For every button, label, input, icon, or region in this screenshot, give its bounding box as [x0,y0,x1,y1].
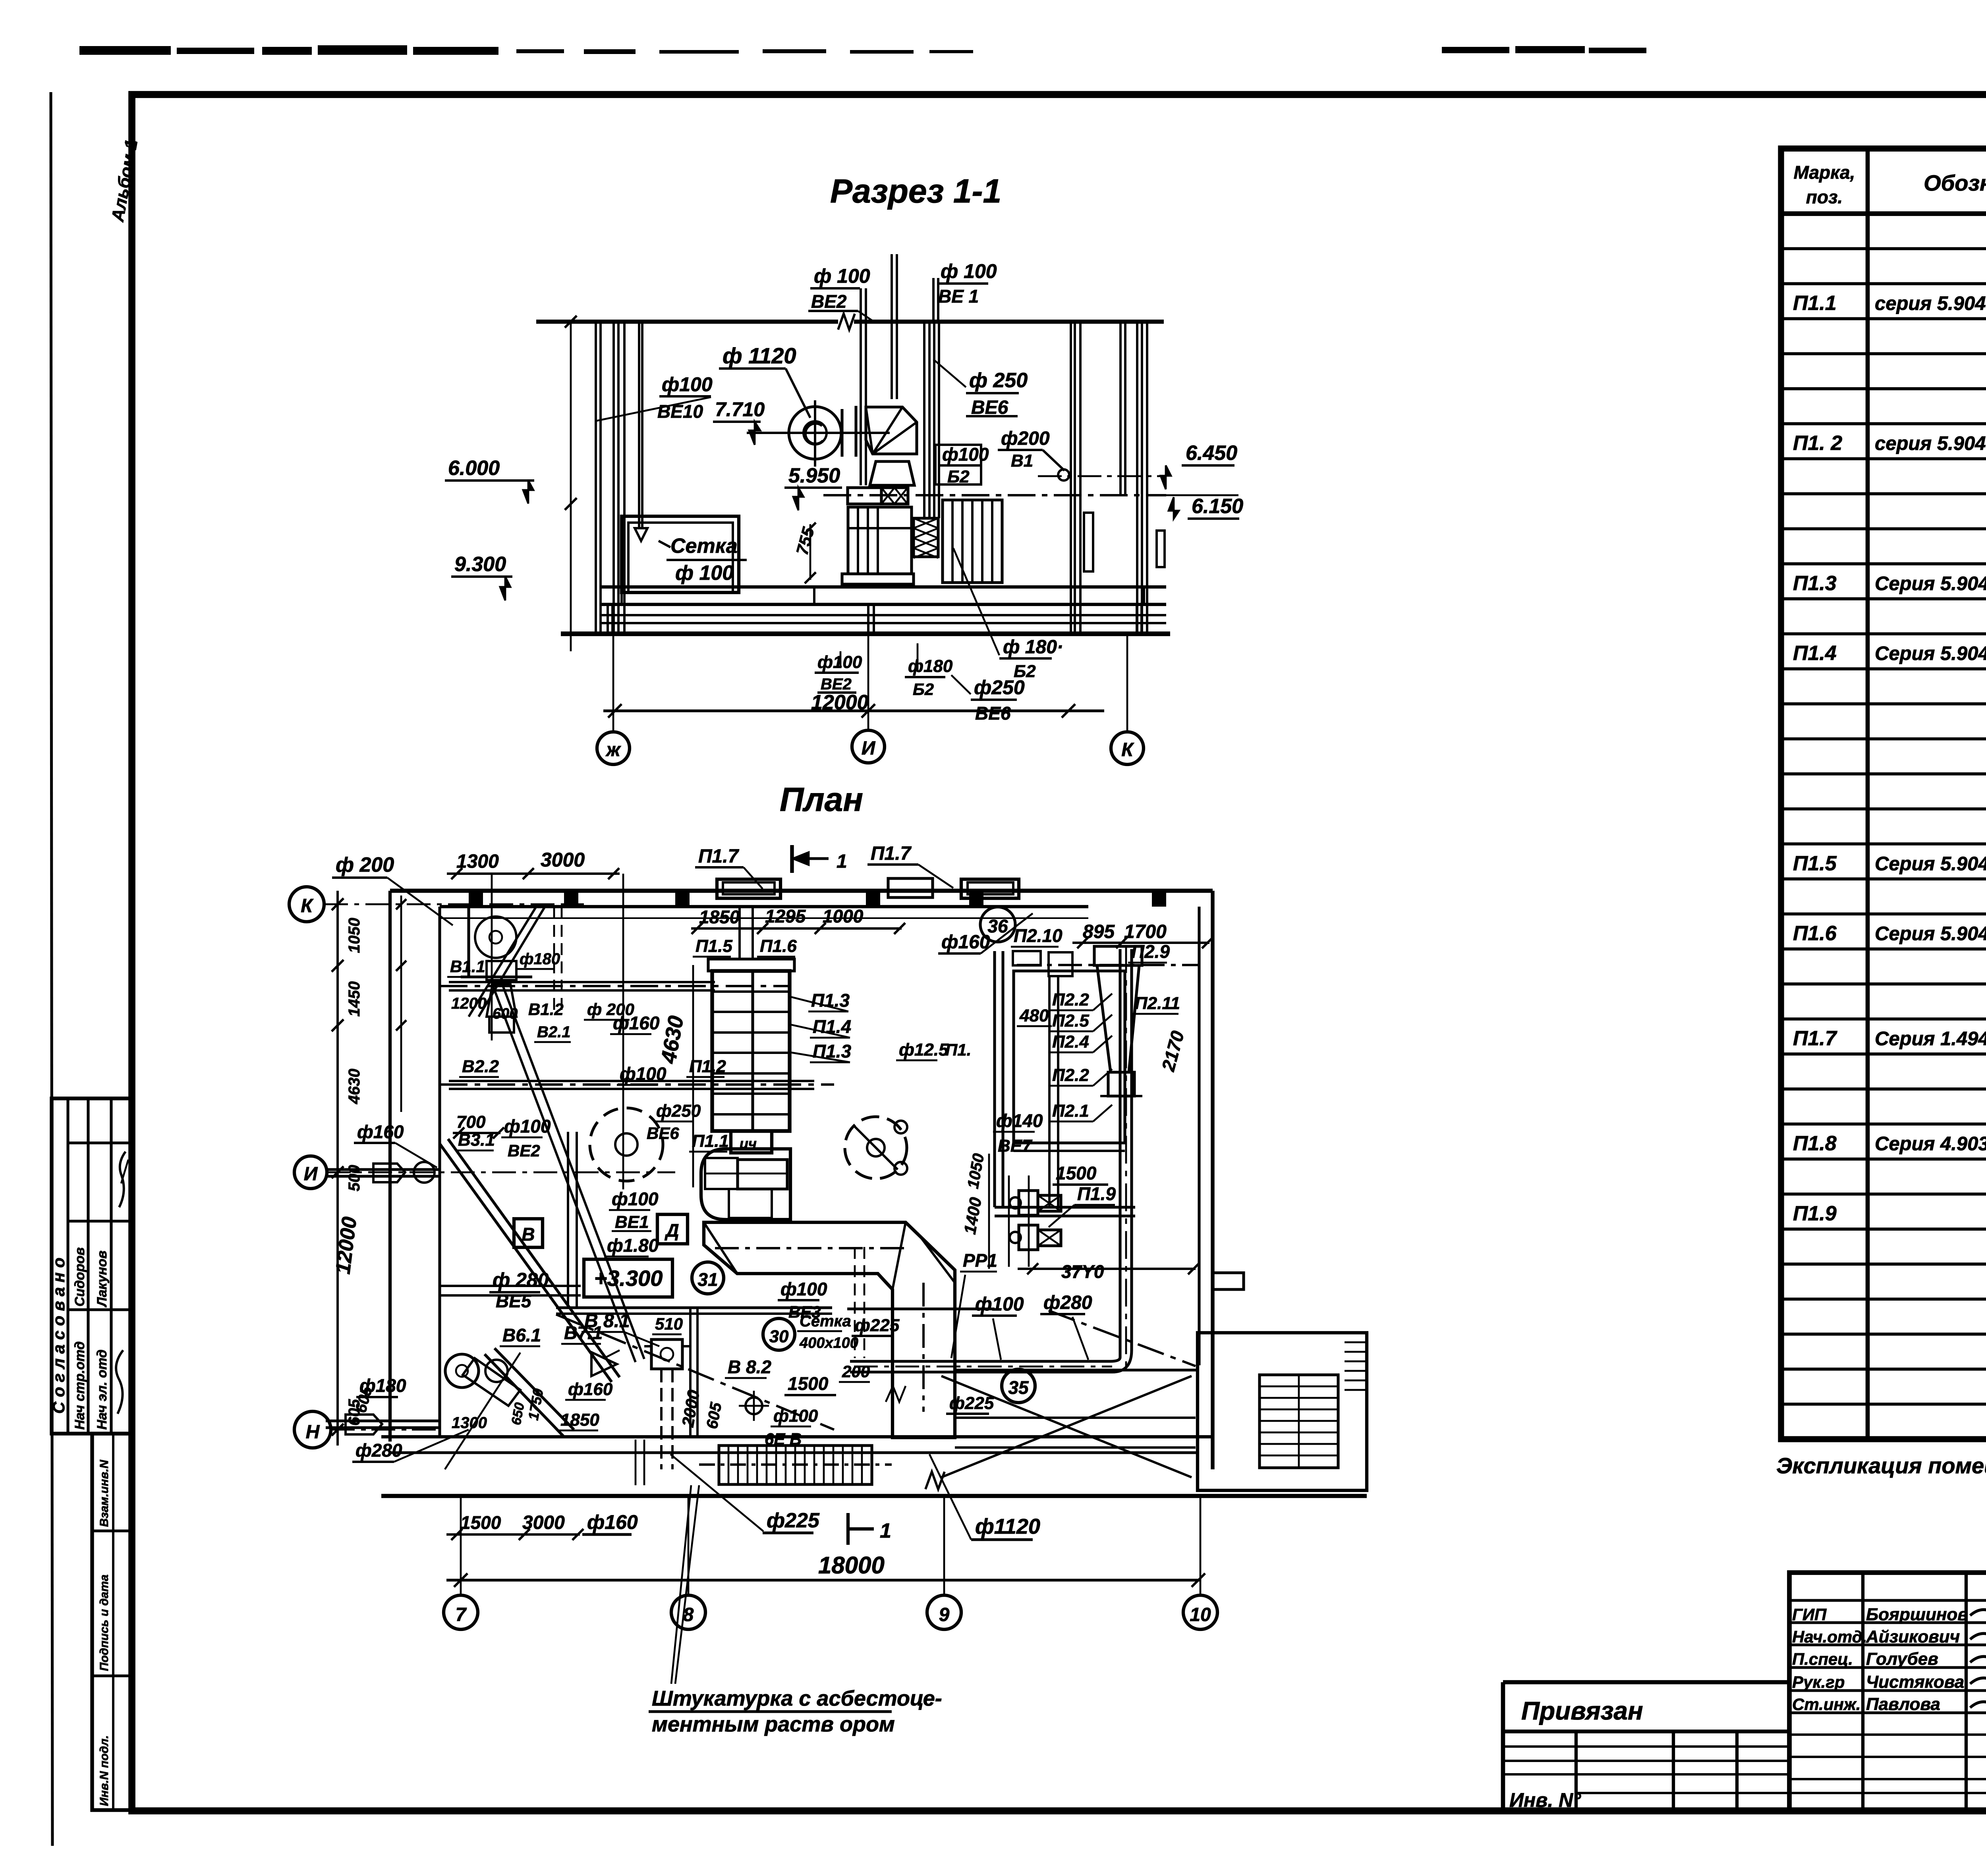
table column lines [1866,149,1870,1439]
svg-text:Инв.N подл.: Инв.N подл. [98,1735,111,1806]
svg-text:1500: 1500 [788,1373,829,1394]
svg-text:18000: 18000 [818,1552,885,1579]
vertical duct pair right partition [1048,977,1051,1207]
transition cone [870,461,914,485]
svg-text:1200: 1200 [451,995,487,1012]
svg-text:Ст.инж.: Ст.инж. [1792,1695,1860,1714]
svg-text:Марка,: Марка, [1794,162,1855,183]
svg-text:В1: В1 [1011,451,1033,471]
svg-text:В1.2: В1.2 [528,1000,564,1019]
filter B2 hatched [914,518,938,557]
svg-text:Айзикович: Айзикович [1866,1627,1960,1646]
bubble N [294,1411,331,1448]
svg-text:П1.9: П1.9 [1793,1202,1837,1225]
svg-text:Обозначение: Обозначение [1924,170,1986,195]
svg-text:1700: 1700 [1124,921,1167,942]
right window [1084,513,1093,571]
upper right duct lines [1017,964,1199,966]
specification table outer border [1781,149,1986,1439]
svg-text:35: 35 [1008,1377,1029,1398]
duct above P1 to wall [738,907,741,959]
svg-text:П1.5: П1.5 [1793,852,1837,875]
air handling unit [848,507,912,574]
duct stubs above ceiling [860,288,862,322]
pumps P1.9 [1019,1191,1038,1215]
svg-text:И: И [862,738,876,759]
section left wall [595,322,597,635]
ВЕ3 drop duct dashed pair [854,1247,856,1358]
supply unit P1 stack [712,971,790,1131]
svg-text:П.спец.: П.спец. [1792,1650,1853,1668]
svg-text:ВЕ3: ВЕ3 [788,1303,821,1321]
svg-text:Штукатурка с асбестоце-: Штукатурка с асбестоце- [652,1687,942,1710]
svg-text:ВЕ2: ВЕ2 [508,1141,540,1160]
36 circle [980,907,1015,942]
svg-text:ф 250: ф 250 [969,369,1028,392]
svg-text:Голубев: Голубев [1866,1649,1938,1669]
left mid pipe row I [328,1168,440,1171]
svg-text:П1.9: П1.9 [1077,1183,1116,1204]
svg-text:ф100: ф100 [780,1279,827,1299]
partition left room stub [467,907,470,977]
svg-text:ВЕ2: ВЕ2 [811,291,847,312]
svg-text:Нач стр.отд: Нач стр.отд [72,1341,87,1430]
svg-text:1500: 1500 [1056,1163,1097,1183]
svg-text:5.950: 5.950 [788,464,840,487]
P1 stack hat [708,959,794,971]
svg-text:600: 600 [493,1006,518,1022]
svg-text:ф 200: ф 200 [587,1000,634,1019]
svg-text:В 8.2: В 8.2 [728,1357,771,1377]
svg-text:В1.1: В1.1 [450,957,485,976]
svg-text:7.710: 7.710 [715,398,765,421]
svg-text:10: 10 [1190,1604,1211,1625]
svg-text:Чистякова: Чистякова [1866,1672,1964,1692]
bubble 8 [671,1595,705,1629]
plan left wall [388,891,392,1442]
svg-text:37Υ0: 37Υ0 [1061,1261,1104,1282]
svg-text:В6.1: В6.1 [502,1325,541,1345]
partition wall horizontal right [995,1206,1135,1208]
V8 vertical duct pair down [660,1369,663,1469]
svg-text:ф 200: ф 200 [336,853,394,876]
hatched belt [463,1358,520,1406]
dim line 12000 section [603,709,1104,712]
duct elbow [866,407,917,454]
small equip top left [475,917,516,958]
svg-text:К: К [301,896,314,917]
svg-text:Б2: Б2 [1014,662,1036,681]
svg-text:Сетка: Сетка [670,535,738,558]
svg-text:С о г л а с о в а н о: С о г л а с о в а н о [49,1258,68,1414]
signatures [1970,1605,1986,1615]
svg-text:ф 180·: ф 180· [1003,637,1063,658]
svg-text:1450: 1450 [346,981,363,1017]
window sill line [440,917,1088,919]
bottom left pipes through wall [326,1419,440,1422]
svg-text:ф160: ф160 [357,1121,404,1142]
privyazan box [1503,1680,1789,1685]
svg-text:510: 510 [655,1314,683,1333]
title block personnel table [1789,1573,1986,1811]
svg-text:ф180: ф180 [520,950,560,968]
partition under +3.300 room [556,1306,832,1309]
svg-text:6Е В: 6Е В [765,1430,802,1448]
35 circle [1002,1369,1035,1403]
svg-text:6.150: 6.150 [1192,495,1243,518]
svg-text:Серия 1.494-27 вып.6: Серия 1.494-27 вып.6 [1875,1028,1986,1050]
svg-text:П1. 2: П1. 2 [1793,432,1842,455]
svg-text:Взам.инв.N: Взам.инв.N [98,1459,111,1527]
svg-text:Рук.гр: Рук.гр [1792,1673,1845,1691]
svg-text:3000: 3000 [541,849,585,871]
svg-text:ф200: ф200 [1001,428,1050,449]
bubble 10 [1183,1595,1217,1629]
fan outlet duct [840,409,843,457]
svg-text:Серия 4.903-10 вып.9: Серия 4.903-10 вып.9 [1875,1133,1986,1155]
section cut mark bottom [846,1513,850,1545]
svg-text:ф1120: ф1120 [975,1515,1040,1538]
svg-text:ж: ж [605,739,621,760]
svg-text:РР1: РР1 [963,1250,997,1271]
svg-text:П1.1: П1.1 [692,1131,729,1151]
31 circle [692,1262,724,1294]
vertical ducts to ceiling [860,322,862,485]
svg-text:серия 5.904-12 вып. 1-18: серия 5.904-12 вып. 1-18 [1875,433,1986,454]
svg-text:Серия 5.904-12.вып.1-35: Серия 5.904-12.вып.1-35 [1875,923,1986,945]
svg-text:6.000: 6.000 [448,457,500,480]
section cut mark top [790,845,794,873]
big inclined duct bottom [485,1354,564,1437]
level line 6.150 [823,494,1166,496]
break marks on vertical duct [886,1386,906,1402]
svg-text:Серия 5.904-12 вып.1-35: Серия 5.904-12 вып.1-35 [1875,853,1986,874]
svg-text:И: И [304,1164,318,1185]
column bubble Ж [612,635,614,733]
section ceiling line [536,320,838,324]
svg-text:ф280: ф280 [355,1440,402,1461]
svg-text:1850: 1850 [699,907,740,927]
elbow centerline [715,1247,910,1249]
svg-text:П2.11: П2.11 [1135,994,1180,1013]
svg-text:ф100: ф100 [975,1294,1024,1315]
inclined duct 2 [469,907,536,1017]
partition vertical below [689,1309,692,1437]
svg-text:ф 100: ф 100 [675,562,734,585]
svg-text:П1.1: П1.1 [1793,292,1837,315]
P2 tapered unit [1094,946,1142,965]
svg-text:ф 280: ф 280 [493,1269,549,1291]
svg-text:1050: 1050 [346,918,363,953]
svg-text:4630: 4630 [346,1069,363,1104]
zone square B [514,1219,543,1247]
svg-text:П1.6: П1.6 [760,936,797,956]
svg-text:П2.10: П2.10 [1014,925,1063,946]
svg-text:В: В [522,1224,535,1245]
P2 room inner box [1014,971,1125,1143]
below floor columns [607,604,609,634]
svg-text:Разрез 1-1: Разрез 1-1 [830,172,1001,210]
svg-text:1850: 1850 [560,1410,599,1430]
svg-text:ф12.5: ф12.5 [899,1040,949,1060]
svg-text:ментным раств ором: ментным раств ором [652,1712,895,1736]
column bubble И section [867,635,869,731]
big elbow duct [704,1222,955,1438]
P1 narrow section with ich [731,1131,772,1153]
svg-text:К: К [1121,739,1134,760]
svg-text:Д: Д [664,1220,679,1241]
svg-text:12000: 12000 [811,691,869,714]
svg-text:В2.1: В2.1 [537,1023,571,1041]
svg-text:200: 200 [842,1362,870,1381]
svg-text:П1.3: П1.3 [1793,572,1837,595]
svg-text:П1.8: П1.8 [1793,1132,1837,1155]
heater hatched box [881,488,908,504]
svg-text:В2.2: В2.2 [462,1057,499,1076]
motor small circles right fan [894,1121,907,1133]
svg-text:1: 1 [880,1519,891,1542]
svg-text:1000: 1000 [823,906,864,926]
svg-text:ф160: ф160 [568,1380,613,1399]
svg-text:П1.5: П1.5 [695,936,732,956]
svg-text:П2.9: П2.9 [1131,941,1170,962]
svg-text:ВЕ2: ВЕ2 [821,676,852,693]
section hanging duct rod [638,322,640,528]
svg-text:П1.2: П1.2 [689,1057,726,1076]
valve V7.1 [591,1352,617,1376]
svg-text:ф140: ф140 [996,1110,1043,1131]
right radiator unit [943,500,1002,583]
P1.1 fan scroll [701,1149,790,1220]
L duct bottom left [440,1285,581,1287]
svg-text:ф225: ф225 [949,1393,994,1413]
dim 18000 [446,1579,1200,1581]
svg-text:ф 1120: ф 1120 [723,343,796,368]
svg-text:Привязан: Привязан [1521,1697,1643,1725]
sheet edge line left [51,92,52,1846]
bubble I [294,1156,327,1189]
bottom bubbles leaders [460,1496,462,1595]
bubble 7 [444,1595,478,1629]
right wall columns [1070,322,1072,635]
svg-text:ВЕ1: ВЕ1 [615,1212,649,1232]
inclined duct from left wall [440,1144,612,1382]
plan bottom wall [381,1435,1213,1438]
X brace right trench [941,1376,1192,1477]
svg-text:1300: 1300 [452,1414,487,1432]
svg-text:ВЕ6: ВЕ6 [975,703,1011,724]
bottom cluster valves [445,1354,479,1388]
second inclined duct [493,985,636,1362]
fan dashed circle left [590,1108,663,1181]
svg-text:Подпись и дата: Подпись и дата [98,1575,111,1671]
table header row line [1781,211,1986,216]
plan foundation bottom line [381,1494,1367,1498]
svg-text:Н: Н [306,1422,320,1443]
duct axis lines across left part [440,985,790,987]
svg-text:Экспликация помещений приведе: Экспликация помещений приведена на листе… [1776,1453,1986,1478]
level +3.300 box [584,1259,672,1297]
grate hatched strip [719,1446,872,1484]
svg-text:6.450: 6.450 [1186,442,1237,465]
svg-text:400х100: 400х100 [799,1335,858,1351]
svg-text:ф225: ф225 [855,1316,900,1335]
svg-text:серия 5.904-12 вып.1-4: серия 5.904-12 вып.1-4 [1875,293,1986,315]
svg-text:700: 700 [456,1112,486,1132]
svg-text:ф100: ф100 [662,373,713,396]
svg-text:ф100: ф100 [773,1406,818,1426]
svg-text:Павлова: Павлова [1866,1695,1940,1714]
svg-text:ф250: ф250 [656,1101,701,1121]
svg-text:31: 31 [697,1269,718,1290]
svg-text:ВЕ6: ВЕ6 [647,1124,679,1143]
svg-text:Нач эл. отд: Нач эл. отд [95,1349,110,1430]
fan axis lines [747,432,890,434]
table row lines [1781,247,1986,250]
svg-text:ВЕ7: ВЕ7 [998,1136,1033,1156]
svg-text:ВЕ5: ВЕ5 [496,1291,532,1311]
svg-text:П1.: П1. [945,1040,971,1059]
30 circle [763,1318,795,1350]
plan right wall [1211,891,1214,1469]
svg-text:ф180: ф180 [908,656,953,676]
svg-text:ВЕ 1: ВЕ 1 [938,286,979,307]
stamp column Взам.инв / Подпись и дата / Инв.№ подл. [92,1434,131,1810]
bubble 9 [927,1595,961,1629]
svg-text:План: План [780,781,863,818]
room dim chain x1010 [400,896,402,1112]
stairs [1260,1375,1338,1468]
svg-text:П1.7: П1.7 [1793,1027,1837,1050]
zone square D [657,1214,688,1244]
svg-text:ф225: ф225 [767,1509,820,1532]
partition wall vertical right [993,951,996,1207]
svg-text:поз.: поз. [1806,187,1843,207]
svg-text:ф 100: ф 100 [814,265,870,287]
svg-text:ф100: ф100 [612,1189,659,1209]
right wall protrusion [1213,1273,1244,1289]
svg-text:9: 9 [939,1604,950,1625]
svg-text:Б2: Б2 [913,680,934,699]
dim extension verticals [491,874,493,1040]
stair side hatch [1345,1341,1367,1343]
stair block bottom right [1198,1333,1367,1490]
svg-text:1: 1 [837,851,847,872]
svg-text:ГИП: ГИП [1792,1605,1827,1624]
signature squiggles [119,1152,126,1207]
svg-text:ф160: ф160 [587,1511,638,1533]
svg-text:Инв. N°: Инв. N° [1509,1789,1581,1811]
approval stamp block Согласовано [52,1098,131,1434]
bubble K [289,887,324,922]
svg-text:ф1.80: ф1.80 [607,1235,659,1256]
svg-text:480: 480 [1019,1006,1049,1025]
fan circle right [845,1117,907,1179]
svg-text:П1.7: П1.7 [871,843,912,864]
column bubble К section [1126,635,1128,733]
svg-text:1295: 1295 [765,906,806,926]
valve V8.1 junction [651,1339,682,1369]
duct down left side [567,1132,569,1307]
svg-text:ф100: ф100 [504,1116,551,1137]
svg-text:Бояршинов: Бояршинов [1866,1605,1968,1624]
svg-text:П1.7: П1.7 [698,846,740,867]
fan circle [789,407,841,459]
svg-text:30: 30 [769,1327,789,1346]
svg-text:Лакунов: Лакунов [95,1251,110,1308]
svg-text:Нач.отд.: Нач.отд. [1792,1627,1867,1646]
left dim chain [336,891,339,1446]
svg-text:9.300: 9.300 [454,553,506,576]
svg-text:ф 100: ф 100 [941,260,997,282]
svg-text:7: 7 [456,1604,467,1625]
floor slab lines [601,585,1166,589]
diag dash line right room [1049,1310,1196,1366]
right bottom trench walls [955,1368,1196,1371]
svg-text:Серия 5.904-12 вып.1-18: Серия 5.904-12 вып.1-18 [1875,643,1986,664]
svg-text:1500: 1500 [460,1512,501,1533]
svg-text:Сидоров: Сидоров [72,1247,87,1307]
vertical shaft pair right [1119,949,1121,1357]
horizontal duct to shaft corner [850,1357,1120,1361]
mesh tank room [622,516,739,593]
svg-text:Серия 5.904-12, вып 1-31: Серия 5.904-12, вып 1-31 [1875,573,1986,594]
svg-text:П1.6: П1.6 [1793,922,1837,945]
plan top wall piers [469,891,483,907]
roof vent louver boxes [717,879,780,898]
svg-text:36: 36 [987,916,1008,936]
top scan smudges [79,46,171,55]
dashed drop duct near B1.1 [553,907,555,1015]
svg-text:П1.4: П1.4 [1793,642,1837,665]
misc leaders bottom left [445,1353,520,1469]
leader from plaster note [671,1485,691,1684]
plan top wall [390,889,1213,893]
